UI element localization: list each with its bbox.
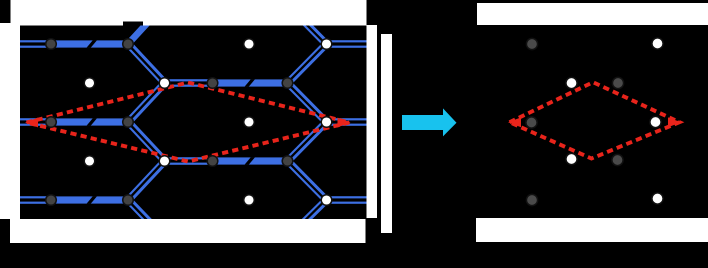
black notch bottom-left corner <box>0 219 10 243</box>
white separator bar 2 <box>381 34 392 233</box>
weak diagonal bond (128,44)-(164,83) <box>126 42 166 84</box>
white crop band top right panel <box>477 3 708 25</box>
weak diagonal bond (164,83)-(128,122) <box>126 81 166 123</box>
sublattice-A site row2 x164 <box>159 78 170 89</box>
sublattice-B site row3 x128 <box>123 117 134 128</box>
strong dimer bond row2 <box>213 79 288 86</box>
weak bond row5 right edge <box>330 196 369 204</box>
black tick on band edge <box>123 22 143 26</box>
weak diagonal bond stub (326,200) down <box>286 198 328 239</box>
effective lattice sublattice-B site (531,122) <box>526 117 537 128</box>
sublattice-B site row2 x212 <box>207 78 218 89</box>
white crop band top left panel <box>11 0 367 26</box>
sublattice-A site row3 x326 <box>321 117 332 128</box>
weak diagonal bond (287,161)-(326,122) <box>286 120 328 162</box>
weak diagonal bond (287,83)-(326,122) <box>286 81 328 123</box>
weak diagonal bond stub (326,44) up <box>286 3 328 45</box>
sublattice-A site row5 x249 <box>244 195 255 206</box>
effective lattice sublattice-B site (532,200) <box>526 194 537 205</box>
effective lattice sublattice-A site (571,159) <box>566 153 577 164</box>
sublattice-B site row5 x51 <box>46 195 57 206</box>
white crop band bottom right panel <box>476 218 708 242</box>
effective lattice sublattice-A site (657,198) <box>652 193 663 204</box>
weak diagonal bond (128,122)-(164,161) <box>126 120 166 162</box>
weak bond row5 left edge <box>19 196 53 204</box>
unit cell right arrowhead right panel <box>668 117 681 127</box>
weak diagonal bond (164,161)-(128,200) <box>126 159 166 201</box>
unit cell left arrowhead right panel <box>508 117 521 127</box>
weak bond row3 right edge <box>330 118 369 126</box>
sublattice-B site row1 x51 <box>46 39 57 50</box>
weak bond row1 right edge <box>330 40 369 48</box>
sublattice-A site row3 x249 <box>244 117 255 128</box>
effective lattice sublattice-B site (617,160) <box>612 154 623 165</box>
effective lattice sublattice-A site (657,43) <box>652 38 663 49</box>
weak diagonal bond stub (128,200) down <box>126 198 166 239</box>
sublattice-A site row1 x249 <box>244 39 255 50</box>
weak bond row4 <box>163 157 214 165</box>
white crop band bottom left panel <box>10 219 366 243</box>
weak bond row1 left edge <box>19 40 53 48</box>
unit cell rhombus left panel <box>27 83 350 162</box>
weak diagonal bond (287,161)-(326,200) <box>286 159 328 201</box>
effective lattice sublattice-B site (532,44) <box>526 38 537 49</box>
unit cell left arrowhead a1 <box>25 118 38 128</box>
sublattice-A site row4 x89 <box>84 156 95 167</box>
sublattice-B site row1 x128 <box>123 39 134 50</box>
cyan arrow <box>402 108 457 136</box>
weak diagonal bond (287,83)-(326,44) <box>286 42 328 84</box>
sublattice-B site row3 x51 <box>46 117 57 128</box>
sublattice-B site row2 x287 <box>282 78 293 89</box>
strong dimer bond row3 <box>51 118 128 125</box>
effective lattice sublattice-A site (655,122) <box>650 116 661 127</box>
unit cell rhombus right panel <box>510 82 680 158</box>
strong dimer bond row4 <box>213 157 288 164</box>
white separator bar 1 <box>367 25 378 218</box>
strong dimer bond row1 <box>51 40 128 47</box>
black notch top-left corner <box>0 0 11 23</box>
effective lattice sublattice-A site (571,83) <box>566 77 577 88</box>
strong dimer bond row5 <box>51 196 128 203</box>
sublattice-A site row5 x326 <box>321 195 332 206</box>
white crop column left edge <box>0 23 20 219</box>
sublattice-A site row2 x89 <box>84 78 95 89</box>
sublattice-B site row4 x287 <box>282 156 293 167</box>
sublattice-A site row1 x326 <box>321 39 332 50</box>
effective lattice sublattice-B site (618,83) <box>612 77 623 88</box>
weak bond row3 left edge <box>19 118 53 126</box>
weak bond row2 <box>163 79 214 87</box>
sublattice-B site row5 x128 <box>123 195 134 206</box>
sublattice-A site row4 x164 <box>159 156 170 167</box>
strong diagonal bond stub (128,44) up <box>128 6 163 44</box>
sublattice-B site row4 x212 <box>207 156 218 167</box>
unit cell right arrowhead a2 <box>338 118 351 128</box>
black notch under top band <box>12 26 20 32</box>
